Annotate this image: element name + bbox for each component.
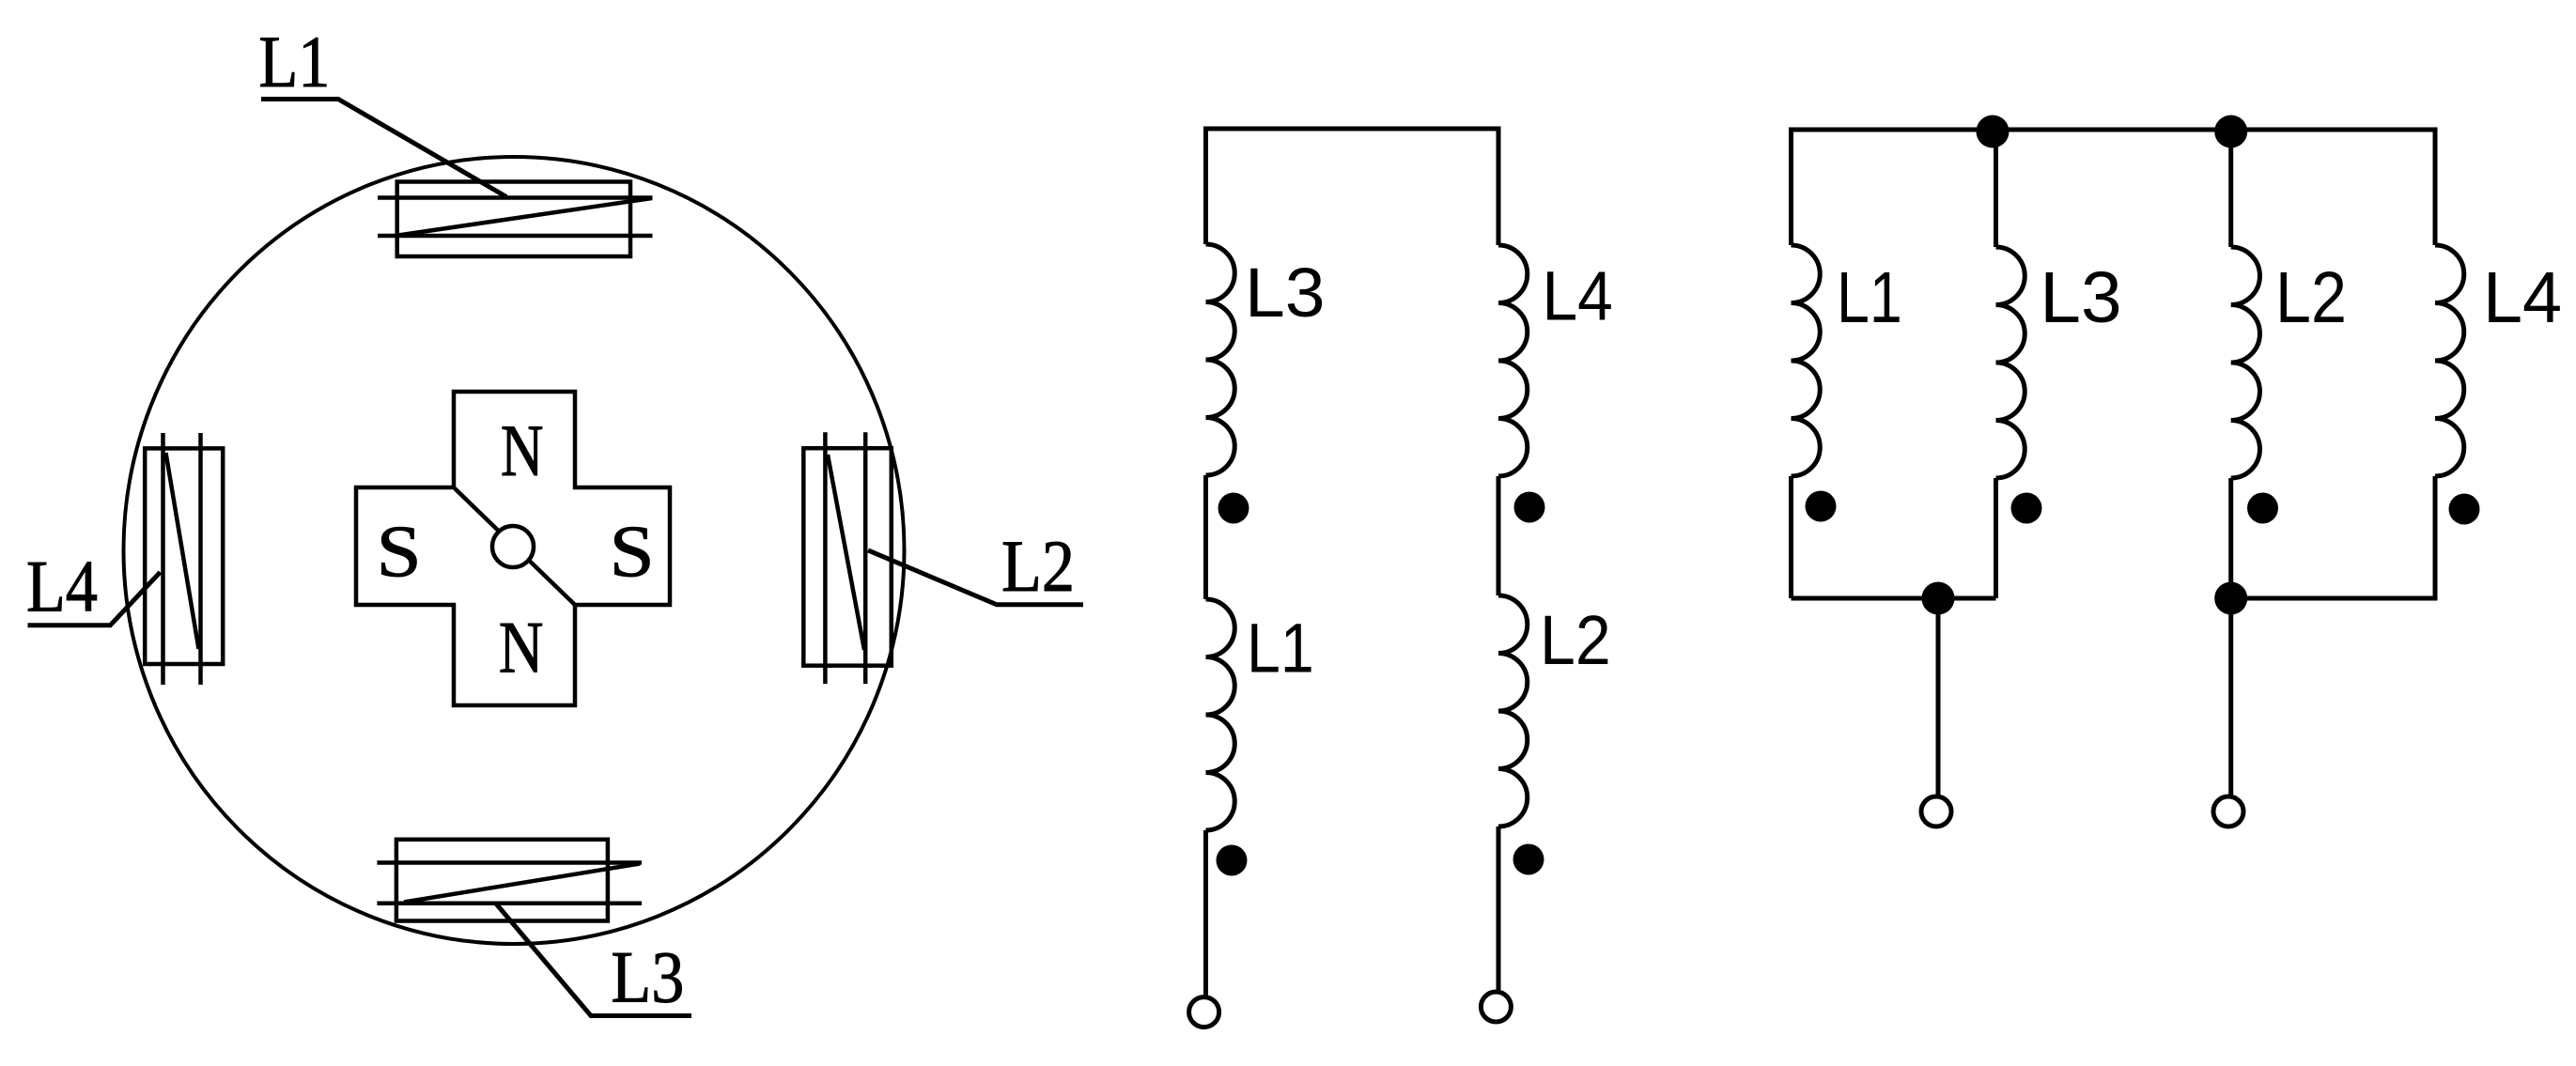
polarity dot L1 right panel bbox=[1806, 491, 1837, 522]
wire L3 branch upper right panel bbox=[1994, 131, 1998, 247]
terminal circle group2 bbox=[2213, 796, 2243, 827]
svg-text:N: N bbox=[499, 607, 544, 688]
inductor L3 right panel bbox=[1996, 247, 2025, 478]
svg-text:L3: L3 bbox=[611, 935, 684, 1017]
wire L3 branch lower right panel bbox=[1994, 478, 1998, 598]
wire top right panel bbox=[1792, 128, 2436, 132]
svg-text:L2: L2 bbox=[1540, 601, 1611, 679]
wire top middle panel bbox=[1206, 127, 1499, 131]
wire left upper middle panel bbox=[1203, 127, 1208, 245]
coil L1 (top pole winding) bbox=[378, 182, 653, 257]
svg-text:L3: L3 bbox=[2040, 257, 2121, 338]
wire right middle segment bbox=[1497, 476, 1501, 595]
inductor L3 middle bbox=[1206, 244, 1235, 475]
rotor cross bbox=[356, 392, 670, 705]
junction dot bottom group2 bbox=[2214, 582, 2247, 615]
stator circle bbox=[124, 157, 905, 944]
polarity dot below L2 middle bbox=[1513, 844, 1544, 875]
polarity dot below L1 middle bbox=[1217, 845, 1248, 876]
polarity dot L4 right panel bbox=[2449, 494, 2480, 525]
label L1 with leader bbox=[259, 21, 507, 197]
polarity dot L3 right panel bbox=[2011, 493, 2042, 524]
junction dot top A right panel bbox=[1977, 116, 2010, 148]
inductor L2 right panel bbox=[2231, 247, 2260, 478]
svg-text:L4: L4 bbox=[1543, 256, 1613, 334]
svg-text:S: S bbox=[610, 510, 655, 592]
junction dot top B right panel bbox=[2214, 116, 2247, 148]
coil L3 (bottom pole winding) bbox=[377, 840, 642, 921]
inductor L2 middle bbox=[1498, 595, 1528, 827]
wire left middle segment bbox=[1203, 475, 1208, 599]
terminal circle group1 bbox=[1921, 796, 1951, 827]
wire L4 branch upper right panel bbox=[2433, 128, 2438, 246]
rotor shaft diagonal bbox=[455, 488, 575, 605]
wire right lower middle panel bbox=[1497, 827, 1501, 990]
polarity dot L2 right panel bbox=[2247, 493, 2278, 524]
inductor L4 middle bbox=[1498, 245, 1528, 476]
inductor L4 right panel bbox=[2435, 245, 2464, 476]
label L3 with leader bbox=[496, 904, 691, 1018]
terminal circle left middle bbox=[1189, 997, 1219, 1027]
coil L2 (right pole winding) bbox=[803, 432, 892, 684]
inductor L1 right panel bbox=[1792, 245, 1821, 476]
polarity dot below L4 middle bbox=[1514, 492, 1545, 523]
inductor L1 middle bbox=[1206, 599, 1235, 830]
label L4 with leader bbox=[26, 546, 161, 627]
wire right upper middle panel bbox=[1497, 127, 1501, 246]
polarity dot below L3 middle bbox=[1218, 493, 1249, 524]
svg-text:L3: L3 bbox=[1245, 254, 1326, 332]
svg-text:L4: L4 bbox=[26, 546, 98, 627]
wire left lower middle panel bbox=[1203, 830, 1208, 996]
svg-text:S: S bbox=[377, 510, 422, 592]
svg-text:L1: L1 bbox=[259, 21, 331, 102]
wire L4 branch lower right panel bbox=[2433, 476, 2438, 601]
svg-text:L1: L1 bbox=[1837, 257, 1902, 338]
wire bottom group1 right panel bbox=[1792, 596, 1996, 601]
svg-text:L1: L1 bbox=[1247, 610, 1314, 687]
label L2 with leader bbox=[868, 525, 1083, 607]
svg-text:N: N bbox=[501, 409, 544, 491]
svg-text:L4: L4 bbox=[2483, 257, 2562, 338]
terminal wire group1 bbox=[1936, 598, 1941, 795]
wire bottom group2 right panel bbox=[2231, 596, 2435, 601]
terminal wire group2 bbox=[2228, 598, 2233, 795]
rotor shaft circle bbox=[492, 526, 534, 567]
wire L1 branch lower right panel bbox=[1789, 476, 1793, 598]
terminal circle right middle bbox=[1481, 992, 1511, 1022]
coil L4 (left pole winding) bbox=[145, 433, 223, 685]
wire L2 branch lower right panel bbox=[2228, 478, 2233, 598]
svg-text:L2: L2 bbox=[2275, 257, 2347, 338]
wire L2 branch upper right panel bbox=[2228, 131, 2233, 247]
svg-text:L2: L2 bbox=[1001, 525, 1075, 607]
junction dot bottom group1 bbox=[1922, 582, 1955, 615]
wire L1 branch upper right panel bbox=[1789, 128, 1793, 246]
